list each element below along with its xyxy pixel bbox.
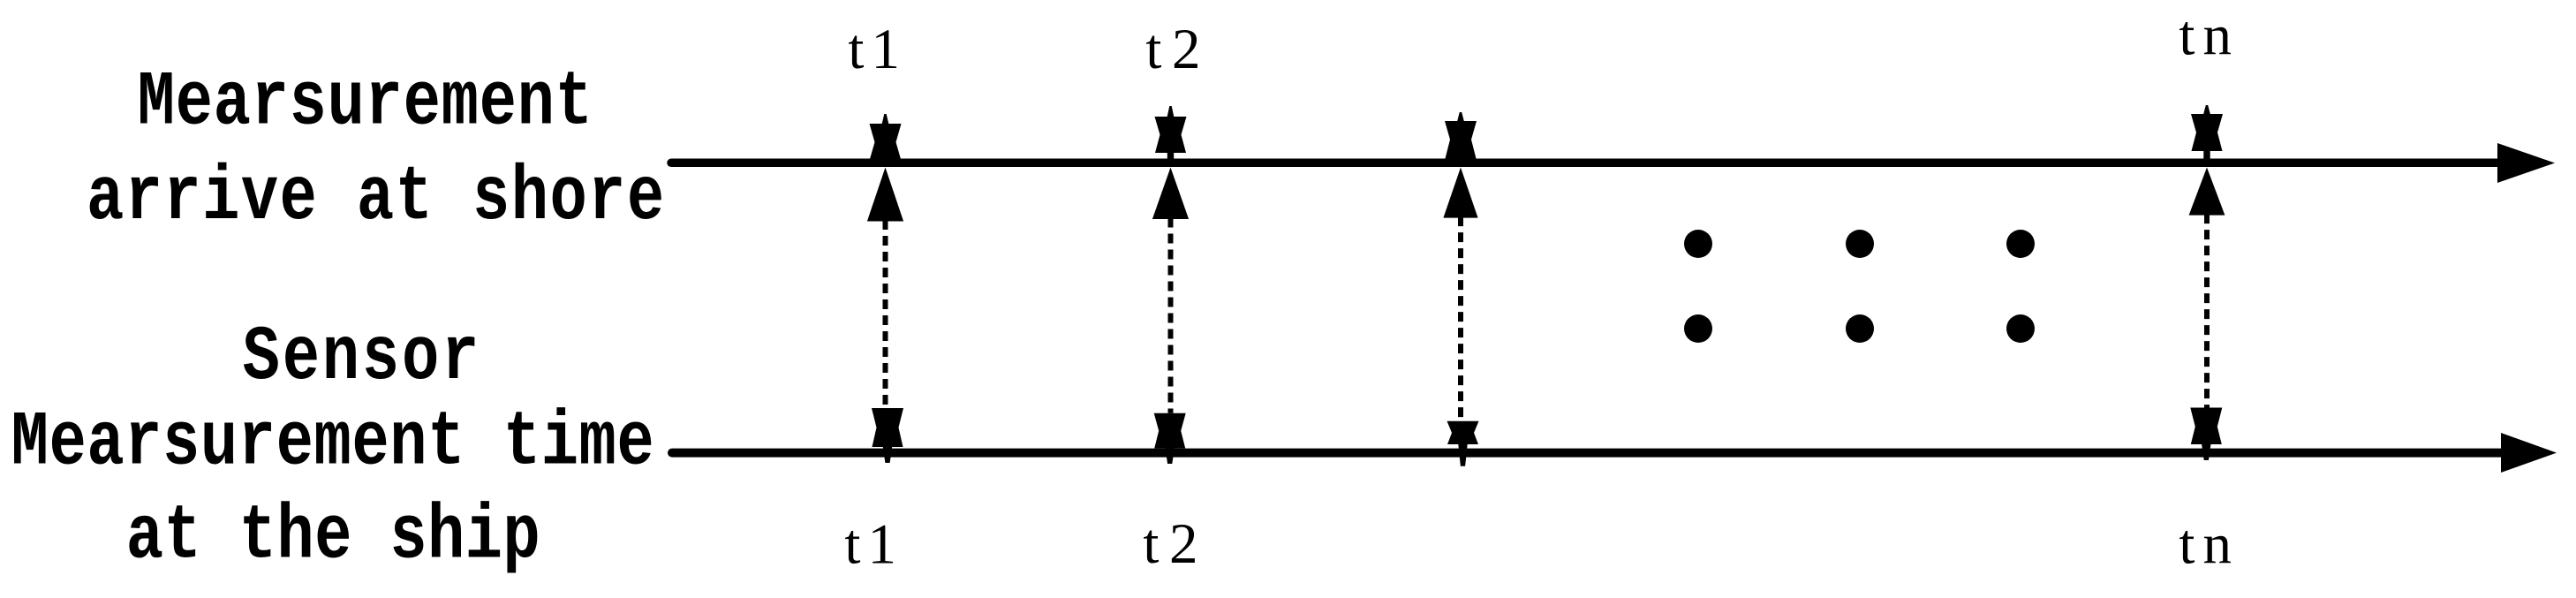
svg-text:t2: t2	[1143, 512, 1208, 576]
node t2 : star marker on shore timeline	[1155, 106, 1187, 160]
svg-text:Mearsurement time: Mearsurement time	[11, 399, 655, 487]
connector tn : dashed vertical arrow with solid head pointing up	[2189, 168, 2225, 408]
svg-text:t1: t1	[848, 18, 907, 81]
svg-text:arrive at shore: arrive at shore	[87, 154, 666, 241]
svg-text:t1: t1	[844, 513, 903, 577]
connector t1 : dashed vertical arrow with solid head pointing up	[867, 168, 903, 409]
node tn : star marker on shore timeline	[2191, 105, 2223, 160]
svg-text:tn: tn	[2179, 513, 2240, 577]
svg-text:tn: tn	[2179, 4, 2240, 68]
svg-text:Sensor: Sensor	[243, 314, 482, 401]
timeline 2: sensor measurement time at the ship (horizontal arrow)	[672, 433, 2557, 473]
node t3 : star marker on shore timeline	[1445, 112, 1477, 159]
svg-text:at the ship: at the ship	[126, 493, 540, 580]
connector t2 : dashed vertical arrow with solid head pointing up	[1152, 168, 1189, 413]
connector t3 : dashed vertical arrow with solid head pointing up	[1443, 168, 1477, 421]
node tn : star marker on ship timeline	[2190, 408, 2222, 461]
ellipsis dots row 2	[1684, 314, 2035, 343]
svg-text:t2: t2	[1145, 18, 1211, 81]
node t3 : star marker on ship timeline	[1447, 421, 1479, 466]
node t1 : star marker on shore timeline	[870, 114, 902, 159]
timeline 1: measurements arrive at shore (horizontal arrow)	[671, 143, 2555, 183]
svg-text:Mearsurement: Mearsurement	[138, 59, 593, 147]
node t1 : star marker on ship timeline	[872, 408, 903, 463]
ellipsis dots row 1	[1684, 230, 2035, 258]
node t2 : star marker on ship timeline	[1154, 413, 1186, 464]
